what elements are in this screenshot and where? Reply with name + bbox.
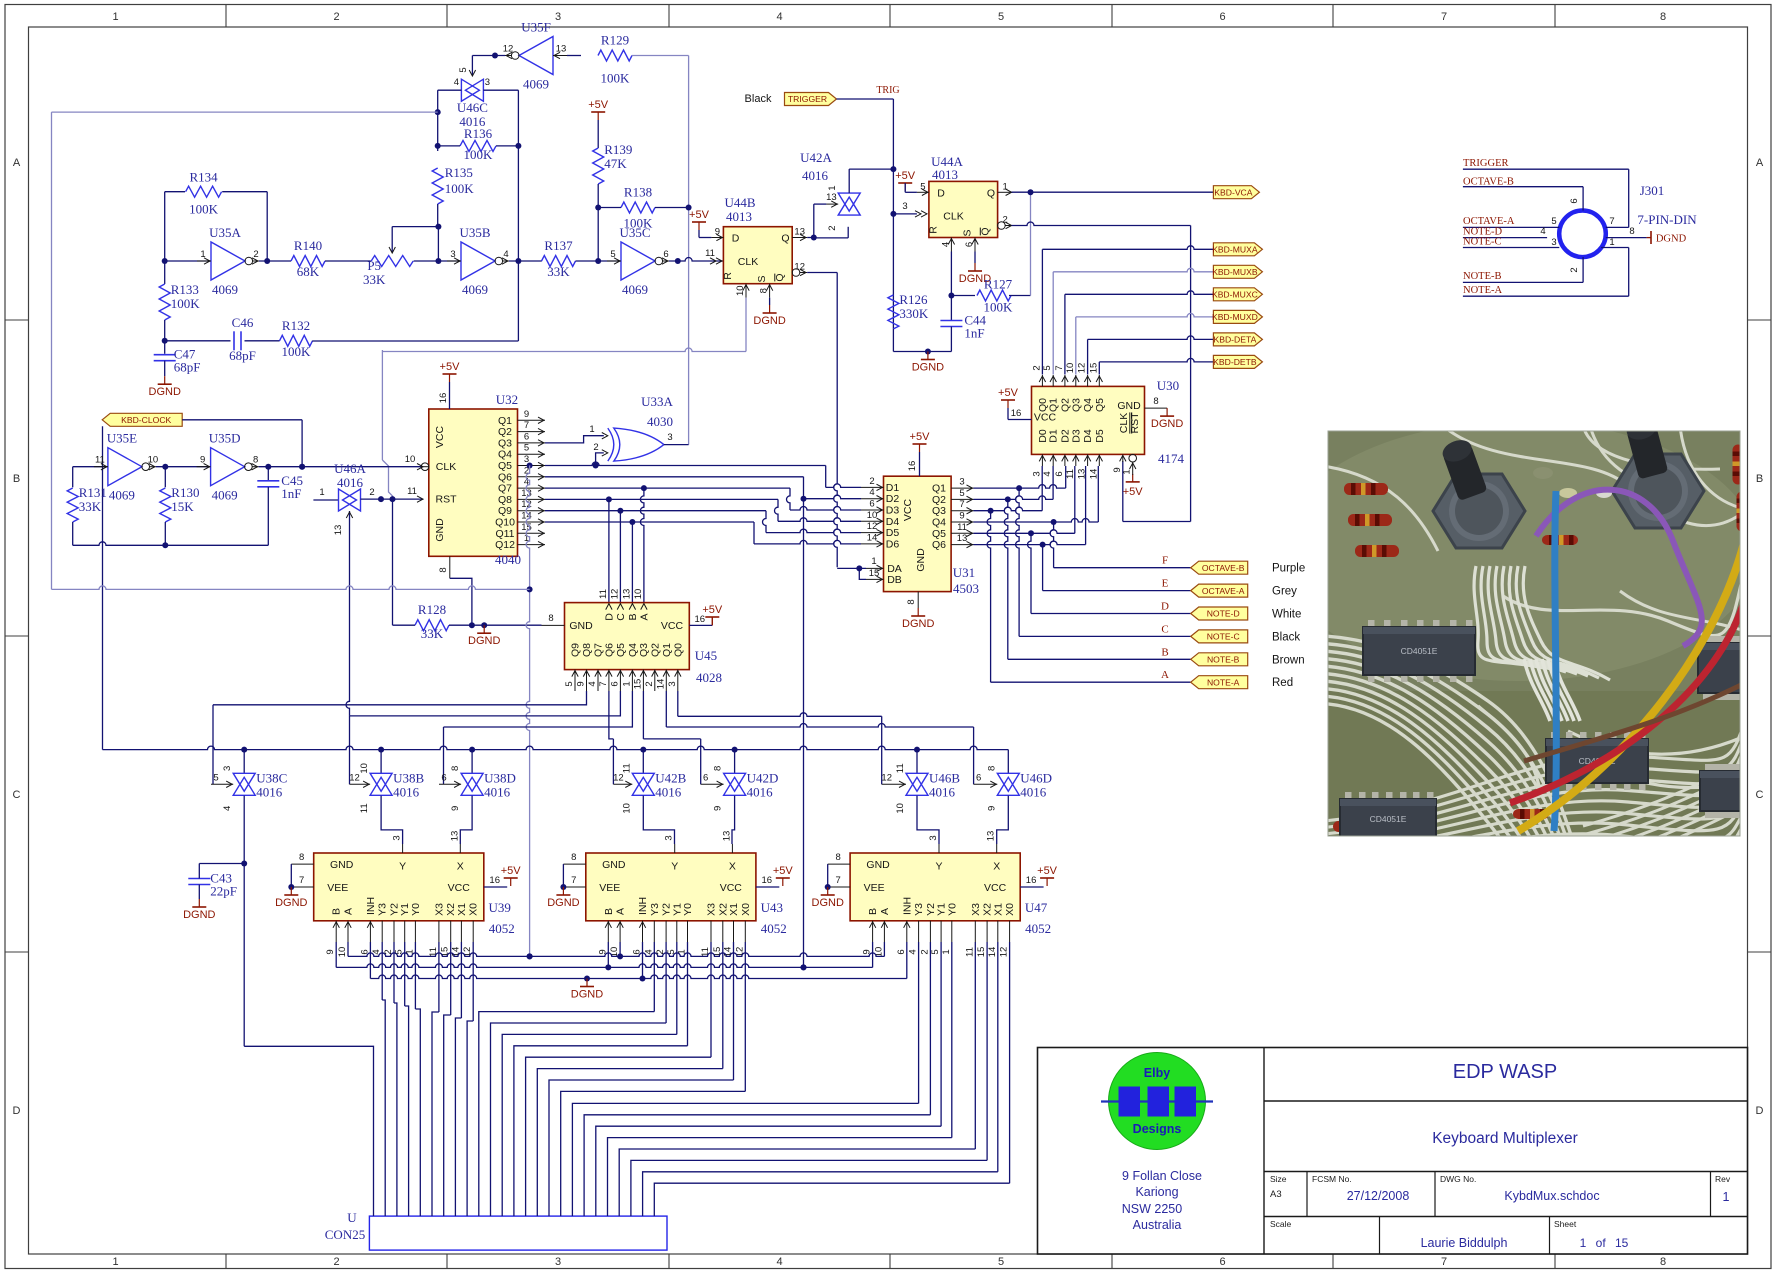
wire [1004,499,1007,659]
wire NOTE-B [1463,281,1583,283]
svg-text:Y0: Y0 [946,903,958,916]
svg-text:VCC: VCC [1034,412,1057,424]
svg-text:RST: RST [436,494,458,506]
capacitor C44 [940,313,986,341]
wire [164,467,166,488]
svg-text:Y: Y [935,861,942,873]
IC U43 body [586,853,756,921]
svg-text:OCTAVE-A: OCTAVE-A [1202,586,1245,596]
analog switch U46D [974,766,1052,811]
svg-text:4069: 4069 [212,282,238,297]
svg-text:5: 5 [920,181,925,192]
wire [572,942,918,1216]
wire [259,258,291,264]
svg-text:Y3: Y3 [649,903,661,916]
svg-text:Q11: Q11 [495,528,514,540]
svg-text:U35C: U35C [619,225,650,240]
pin names U44A [928,187,996,236]
port KBD-CLOCK [102,413,182,426]
svg-text:R140: R140 [294,238,322,253]
wire [596,450,608,466]
resistor R128 [415,602,449,641]
svg-text:3: 3 [959,477,964,488]
svg-text:13: 13 [449,831,460,842]
ground DGND [571,979,603,1001]
wire [259,464,424,470]
wire [619,511,621,603]
svg-text:4016: 4016 [747,784,774,799]
svg-text:3: 3 [392,835,403,840]
svg-text:CLK: CLK [943,211,963,223]
net letter A [1161,669,1169,681]
svg-text:Q8: Q8 [498,494,512,506]
svg-text:X1: X1 [728,903,740,916]
wire A-select [526,466,533,960]
photograph of PCB [1278,416,1758,999]
svg-text:2: 2 [1569,267,1580,272]
pin names U44B [722,233,790,283]
wire [916,750,918,774]
svg-text:2: 2 [333,11,339,23]
svg-text:X3: X3 [706,903,718,916]
wire [156,464,211,470]
ground DGND [812,887,844,909]
svg-text:Q9: Q9 [498,505,512,517]
wire [919,452,921,476]
svg-text:B: B [1161,646,1168,658]
svg-text:14: 14 [867,532,878,543]
wire [199,863,244,865]
svg-text:12: 12 [503,44,514,55]
svg-text:4016: 4016 [484,784,511,799]
wire [642,942,644,979]
pins U44B [710,227,807,298]
svg-text:KBD-VCA: KBD-VCA [1214,187,1252,197]
svg-text:7: 7 [1441,1256,1447,1268]
IC U39 body [314,853,484,921]
svg-text:2: 2 [333,1256,339,1268]
capacitor C45 [257,473,303,501]
wire [790,507,861,510]
svg-text:12: 12 [1077,363,1088,374]
svg-text:3: 3 [450,249,455,260]
svg-text:Q5: Q5 [932,528,946,540]
svg-text:16: 16 [438,393,449,404]
svg-text:7: 7 [598,681,609,686]
wire U32 gnd [450,578,472,625]
svg-text:6: 6 [869,499,874,510]
wire [381,796,403,844]
svg-text:4: 4 [908,949,919,954]
svg-text:6: 6 [1054,471,1065,476]
ground DGND [468,625,500,647]
svg-text:GND: GND [569,620,593,632]
svg-text:2: 2 [644,681,655,686]
svg-text:X1: X1 [456,903,468,916]
designator J301 [1637,183,1697,227]
wire [807,235,817,241]
svg-text:16: 16 [1026,875,1037,886]
wire [608,942,952,1216]
wire [164,361,166,377]
svg-text:11: 11 [95,455,105,466]
wire U31 Q4 [974,519,1099,525]
svg-text:R132: R132 [282,318,310,333]
pin names U30 [1034,400,1141,424]
wire [469,56,475,77]
svg-text:A: A [1756,157,1764,169]
wire [734,750,736,774]
svg-text:4: 4 [503,249,508,260]
svg-text:8: 8 [986,766,997,771]
svg-text:68K: 68K [297,264,320,279]
net letter F [1162,555,1168,567]
svg-text:Q4: Q4 [932,517,946,529]
pins U45 top [598,589,651,621]
wire [640,488,643,602]
svg-text:A: A [343,908,355,915]
svg-text:B: B [627,613,639,620]
wire [950,296,952,321]
svg-text:4028: 4028 [696,670,722,685]
wire [1043,590,1191,592]
ground DGND [753,305,785,327]
svg-text:4: 4 [776,1256,782,1268]
svg-text:U35F: U35F [521,20,551,35]
port KBD-MUXB [1212,265,1262,278]
pins U30 gnd [1145,396,1168,408]
IC U44B body [723,227,792,284]
svg-text:68pF: 68pF [229,348,256,363]
svg-text:10: 10 [1065,363,1076,374]
svg-text:S: S [962,229,974,236]
wire [162,258,211,264]
pins U45 gnd/vcc [542,620,684,632]
svg-text:4069: 4069 [622,282,648,297]
svg-text:U35E: U35E [107,431,137,446]
pins U31 gnd [906,592,918,608]
svg-text:Q8: Q8 [581,643,593,657]
wire [164,261,166,284]
ground DGND [1151,408,1183,430]
svg-text:DB: DB [887,574,902,586]
svg-text:10: 10 [621,803,632,814]
svg-text:5: 5 [998,1256,1004,1268]
svg-text:DGND: DGND [571,989,603,1001]
wire [643,796,674,844]
svg-text:8: 8 [548,613,553,624]
svg-text:15: 15 [712,947,723,958]
svg-text:4016: 4016 [1020,784,1047,799]
wire [393,622,542,628]
wire [814,227,848,238]
wire [763,511,767,533]
wire [609,691,614,784]
wire [1065,466,1067,488]
svg-text:X3: X3 [433,903,445,916]
svg-text:S: S [756,275,768,282]
inverter U35E [94,431,158,503]
svg-text:6: 6 [663,249,668,260]
wire pin2 [1582,257,1584,282]
svg-text:KBD-DETA: KBD-DETA [1213,335,1256,345]
+5V power [702,604,723,625]
ground DGND [902,608,934,630]
pin arrows U32 CLK [417,464,423,470]
svg-text:D: D [732,233,740,245]
connector J301 circle [1559,211,1606,258]
label pin 8 U45 [548,613,553,624]
svg-text:3: 3 [928,835,939,840]
svg-text:D: D [1756,1105,1764,1117]
svg-text:GND: GND [1117,400,1141,412]
net letter B [1161,646,1168,658]
wire [267,487,269,545]
designator U43 [761,900,787,936]
svg-text:J301: J301 [1640,183,1665,198]
wire pin7 [1606,226,1629,228]
svg-text:4069: 4069 [212,488,238,503]
svg-text:F: F [1162,555,1168,567]
pin names U47 [864,859,1007,894]
wire [517,261,519,341]
svg-text:X1: X1 [992,903,1004,916]
wire [632,55,689,57]
svg-text:Q4: Q4 [1082,398,1094,412]
svg-text:Q10: Q10 [495,517,515,529]
wire [198,864,200,900]
wire [527,462,826,469]
+5V power [910,431,931,452]
port TRIGGER [785,93,837,106]
svg-text:10: 10 [735,285,746,296]
svg-text:2: 2 [593,442,598,453]
label Purple [1272,563,1305,575]
svg-text:8: 8 [1660,1256,1666,1268]
analog switch U46A [339,489,361,511]
svg-text:DGND: DGND [183,909,215,921]
svg-text:B: B [331,908,343,915]
svg-text:Q: Q [781,233,789,245]
label pin 13 [333,525,344,536]
svg-text:8: 8 [1629,226,1634,237]
wire [479,942,655,1216]
svg-text:13: 13 [556,44,567,55]
analog switch U38B [349,763,424,813]
svg-text:VCC: VCC [720,882,743,894]
svg-text:U35D: U35D [209,431,241,446]
svg-text:3: 3 [667,432,672,443]
svg-text:16: 16 [489,875,500,886]
wire [349,716,351,784]
wire [335,942,337,967]
svg-text:TRIGGER: TRIGGER [788,94,827,104]
svg-text:+5V: +5V [1037,865,1058,877]
wire [631,522,633,603]
wire [893,329,951,355]
connector CON25 body [369,1216,667,1250]
svg-text:R129: R129 [601,33,629,48]
svg-text:8: 8 [438,567,449,572]
resistor R130 [160,485,200,522]
wire pin1 [1601,248,1629,297]
svg-text:Q: Q [774,273,786,281]
svg-text:INH: INH [637,897,649,915]
svg-text:D1: D1 [1048,429,1060,443]
ground DGND [959,263,991,285]
svg-text:1: 1 [827,185,838,190]
label pin 1 [1609,237,1614,248]
svg-text:Y: Y [671,861,678,873]
label TRIG [876,85,899,96]
svg-text:8: 8 [906,599,917,604]
svg-text:KBD-MUXC: KBD-MUXC [1212,290,1258,300]
wire [1042,545,1044,591]
wire [545,485,790,491]
svg-text:10: 10 [633,589,644,600]
wire [987,511,991,683]
svg-text:R133: R133 [171,282,199,297]
port KBD-MUXD [1212,310,1262,323]
wire [595,184,601,264]
wire [814,204,827,237]
designator U39 [489,900,515,936]
svg-text:10: 10 [867,510,878,521]
wire [826,484,861,488]
svg-text:10: 10 [337,947,348,958]
wire [165,192,268,261]
ground DGND [183,899,215,921]
svg-text:100K: 100K [984,300,1014,315]
wire [576,260,622,262]
wire [380,750,382,774]
svg-text:3: 3 [555,1256,561,1268]
resistor R127 [977,277,1013,315]
svg-text:NOTE-B: NOTE-B [1207,655,1240,665]
wire [766,529,861,532]
wire [1050,522,1054,568]
svg-text:E: E [1162,578,1169,590]
wire DA-DB net [807,273,837,568]
+5V power [773,865,794,886]
svg-text:Q5: Q5 [1094,398,1106,412]
svg-text:22pF: 22pF [210,884,237,899]
pins U32 gnd [438,556,450,578]
svg-text:D6: D6 [886,538,900,550]
title block frame [1038,1048,1748,1255]
wire [212,705,214,785]
svg-text:16: 16 [1011,408,1022,419]
wire U31 Q6 [974,541,1086,547]
wire [678,691,882,784]
svg-text:1: 1 [871,556,876,567]
port KBD-DETA [1213,333,1262,346]
wire [567,55,581,57]
svg-text:TRIGGER: TRIGGER [1463,158,1509,169]
port KBD-VCA [1213,186,1259,199]
svg-text:U46D: U46D [1020,770,1052,785]
svg-text:DGND: DGND [912,362,944,374]
svg-text:6: 6 [964,242,975,247]
wire KBD-CLOCK rail [103,746,1009,752]
svg-text:D: D [13,1105,21,1117]
wire [825,466,827,488]
wire [244,1046,373,1216]
label pin 3 [1551,237,1556,248]
wire [243,750,245,774]
net letter D [1161,601,1169,613]
svg-text:Q1: Q1 [1048,398,1060,412]
svg-text:4: 4 [776,11,782,23]
wire [460,796,472,844]
svg-text:B: B [867,908,879,915]
wire [753,522,755,544]
svg-text:100K: 100K [601,71,631,86]
wire [361,496,424,502]
svg-text:+5V: +5V [689,209,710,221]
IC U31 body [884,476,952,591]
wire [991,681,1191,683]
svg-text:13: 13 [621,589,632,600]
svg-text:100K: 100K [445,181,475,196]
svg-text:X0: X0 [1004,903,1016,916]
wire [906,942,908,979]
analog switch U42D [701,766,779,811]
svg-text:U38D: U38D [484,770,516,785]
label pin 11 of U44B [705,248,715,259]
svg-text:2: 2 [827,225,838,230]
svg-text:NOTE-C: NOTE-C [1463,237,1502,248]
svg-text:VEE: VEE [864,882,885,894]
svg-text:B: B [13,473,20,485]
svg-text:15: 15 [632,679,643,690]
svg-text:R139: R139 [604,142,632,157]
analog switch U46C [454,77,490,101]
svg-text:27/12/2008: 27/12/2008 [1347,1189,1410,1203]
port KBD-DETB [1213,355,1262,368]
wire KBD-VCA to R127 [1028,189,1034,295]
wire [545,519,754,525]
resistor R138 [621,185,655,231]
svg-text:U42D: U42D [747,770,779,785]
port NOTE-B [1191,653,1248,666]
svg-text:+5V: +5V [910,431,931,443]
svg-text:14: 14 [1088,469,1099,480]
resistor R132 [280,318,313,359]
svg-text:11: 11 [407,486,417,497]
pins U43 X/Y [664,831,733,853]
svg-text:10: 10 [895,803,906,814]
svg-text:14: 14 [987,947,998,958]
svg-text:4: 4 [454,77,459,88]
svg-text:CLK: CLK [738,256,758,268]
svg-text:4016: 4016 [337,475,364,490]
svg-text:12: 12 [613,772,624,783]
svg-text:Rev: Rev [1715,1174,1731,1184]
svg-text:9: 9 [576,681,587,686]
wire U31 Q1 [974,485,1066,491]
svg-text:16: 16 [695,614,706,625]
svg-text:11: 11 [895,763,906,773]
wire [619,942,975,1216]
wire [596,942,941,1216]
svg-text:GND: GND [434,518,446,542]
svg-text:Designs: Designs [1133,1122,1182,1136]
pins U43 bottom [597,897,752,957]
wire [545,433,608,443]
IC U32 body [429,409,518,556]
svg-text:U46A: U46A [334,461,366,476]
